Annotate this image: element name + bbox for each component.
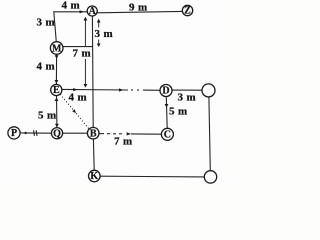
wire corner A to M (4 m horizontal + 3 m vertical): [54, 12, 88, 42]
wire K to bottom-right circle: [100, 175, 204, 178]
wire right circle to bottom-right circle: [209, 97, 210, 171]
svg-text:5 m: 5 m: [38, 110, 57, 122]
node M: [50, 42, 63, 55]
svg-text:E: E: [53, 85, 60, 96]
dimension 7 m (A row to E row): [84, 20, 86, 85]
node bottom-right circle (unlabelled): [204, 171, 216, 183]
wire B to C (7 m) partly dashed with arrow: [99, 133, 161, 136]
arrow toward A on 4 m segment: [80, 10, 84, 13]
svg-text:4 m: 4 m: [62, 0, 81, 12]
svg-text:B: B: [90, 128, 97, 139]
wire B to K: [92, 139, 95, 170]
wire D to C (5 m): [165, 97, 168, 129]
svg-text:9 m: 9 m: [129, 2, 148, 14]
wire E to Q (5 m): [56, 96, 58, 128]
node P: [8, 127, 20, 139]
node B: [87, 127, 99, 139]
svg-text:Z: Z: [184, 5, 191, 16]
svg-text:4 m: 4 m: [69, 92, 88, 104]
wire A down to B: [91, 16, 94, 127]
wire D to right circle (3 m): [172, 89, 202, 91]
svg-text:Q: Q: [53, 128, 61, 139]
node K: [89, 170, 101, 182]
node A: [87, 6, 97, 17]
svg-text:3 m: 3 m: [37, 17, 56, 29]
wire E to D (4 m segment labelled): [62, 88, 160, 91]
wire Q to B: [63, 132, 88, 134]
wire M to E (4 m): [55, 54, 57, 84]
wire E to B dotted diagonal: [60, 94, 89, 129]
svg-text:M: M: [52, 43, 62, 54]
node Q: [51, 128, 62, 140]
wire A to Z (9 m): [97, 11, 182, 12]
wire P to Q with break mark: [20, 132, 51, 134]
node C: [161, 128, 173, 140]
svg-text:3 m: 3 m: [95, 28, 114, 40]
wire M row horizontal to A-B line: [63, 46, 93, 48]
svg-text:D: D: [162, 86, 169, 97]
svg-text:7 m: 7 m: [73, 48, 92, 60]
node right circle (unlabelled): [202, 84, 215, 97]
node D: [160, 85, 172, 97]
dimension 3 m right of A (A row to M row): [98, 22, 100, 46]
svg-text:C: C: [164, 129, 171, 140]
svg-text:5 m: 5 m: [169, 106, 188, 118]
node Z: [182, 5, 192, 16]
node E: [51, 84, 62, 96]
svg-text:K: K: [90, 171, 98, 182]
svg-text:4 m: 4 m: [37, 61, 56, 73]
arrow on E-B diagonal: [72, 109, 76, 113]
svg-text:A: A: [89, 6, 97, 17]
svg-text:3 m: 3 m: [178, 92, 197, 104]
svg-text:P: P: [11, 128, 17, 139]
svg-text:7 m: 7 m: [114, 136, 133, 148]
